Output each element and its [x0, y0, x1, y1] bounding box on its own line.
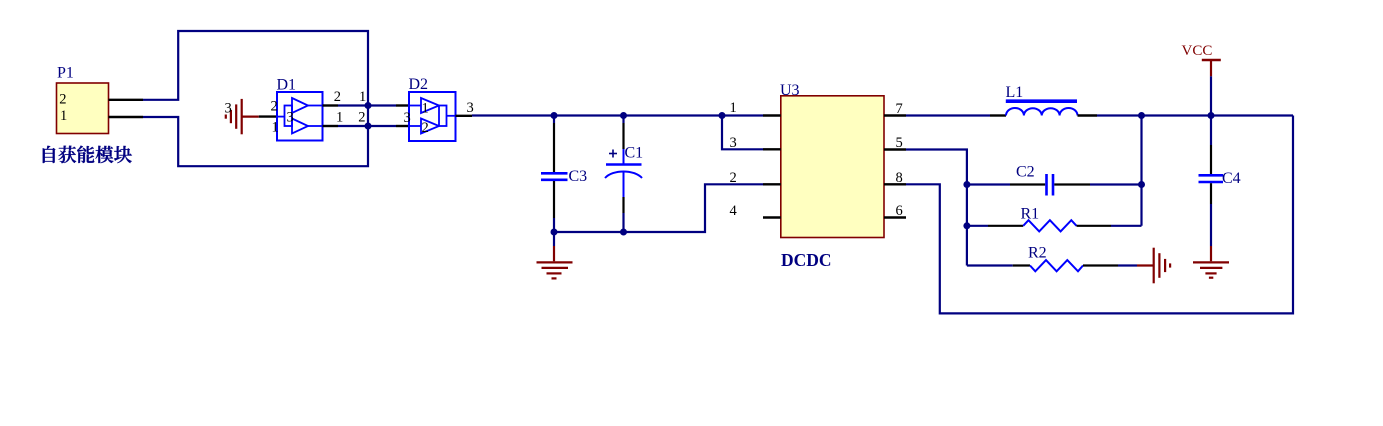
- wire P1.2 top loop to node A: [143, 31, 368, 106]
- svg-text:1: 1: [422, 101, 429, 117]
- svg-text:2: 2: [358, 110, 365, 126]
- svg-text:U3: U3: [780, 82, 800, 99]
- svg-text:7: 7: [896, 101, 903, 117]
- inductor L1: [1006, 101, 1078, 115]
- resistor R1 zigzag: [1023, 220, 1076, 231]
- svg-text:D2: D2: [409, 76, 429, 93]
- capacitor C2 row wires: [967, 183, 1010, 185]
- svg-text:C3: C3: [569, 168, 588, 185]
- label zihuoneng mokuai (self-powering module): [43, 146, 132, 164]
- D2 input pin stubs: [396, 104, 409, 106]
- wire VCC to rail: [1210, 76, 1212, 115]
- wire D1.2 - node A - D2.1: [338, 104, 396, 106]
- svg-text:D1: D1: [277, 76, 297, 93]
- power ground at R2, bar style pointing right: [1137, 248, 1170, 284]
- main rail wire D2.3 to U3.1: [472, 114, 763, 116]
- svg-text:1: 1: [730, 100, 737, 116]
- U3 pin 4 stub: [763, 216, 781, 218]
- svg-text:3: 3: [467, 100, 474, 116]
- svg-text:2: 2: [334, 89, 341, 105]
- svg-text:1: 1: [272, 120, 279, 136]
- junction dot R1 left: [963, 222, 970, 229]
- U3 pin 5 stub: [884, 148, 906, 150]
- wire U3.7 to L1: [906, 114, 990, 116]
- junction dot VCC: [1208, 112, 1215, 119]
- svg-text:4: 4: [730, 203, 738, 219]
- svg-text:3: 3: [225, 101, 232, 117]
- svg-text:C2: C2: [1016, 164, 1035, 181]
- wire L1 to VCC rail and right corner: [1097, 114, 1293, 116]
- svg-text:8: 8: [896, 170, 903, 186]
- svg-text:2: 2: [422, 120, 429, 136]
- junction dot C1/rail: [620, 112, 627, 119]
- capacitor C4: [1199, 116, 1224, 247]
- svg-text:3: 3: [287, 110, 294, 126]
- IC U3 DCDC body: [781, 96, 884, 238]
- junction dot C3/bottom rail: [551, 229, 558, 236]
- junction dot L1/vertical: [1138, 112, 1145, 119]
- wire U3.5 down to C2/R1/R2: [906, 150, 967, 266]
- svg-text:P1: P1: [57, 64, 74, 81]
- svg-text:1: 1: [336, 110, 343, 126]
- junction dot C3/rail: [551, 112, 558, 119]
- U3 pin 1 stub: [763, 114, 781, 116]
- resistor R2 zigzag: [1030, 260, 1083, 271]
- junction dot C2 left: [963, 181, 970, 188]
- dual diode D2 body: [409, 92, 456, 141]
- svg-text:L1: L1: [1006, 84, 1024, 101]
- svg-text:VCC: VCC: [1182, 43, 1213, 59]
- junction dot C2 right: [1138, 181, 1145, 188]
- connector P1: [57, 83, 109, 134]
- svg-text:2: 2: [730, 170, 737, 186]
- svg-text:1: 1: [359, 89, 366, 105]
- svg-text:5: 5: [896, 135, 903, 151]
- D1 pin 3 stub: [259, 115, 277, 117]
- svg-text:R2: R2: [1028, 245, 1047, 262]
- capacitor C3: [541, 116, 568, 233]
- U3 pin 3 stub: [763, 148, 781, 150]
- svg-text:C4: C4: [1222, 170, 1241, 187]
- junction dot C1/bottom rail: [620, 229, 627, 236]
- L1 left pin stub: [990, 114, 1006, 116]
- earth ground under C3: [537, 232, 573, 278]
- power ground GND (D1 pin3), bar style pointing left: [226, 99, 259, 134]
- U3 pin 8 stub: [884, 183, 906, 185]
- svg-text:3: 3: [404, 110, 411, 126]
- svg-text:2: 2: [59, 92, 66, 108]
- U3 pin 2 stub: [763, 183, 781, 185]
- svg-text:2: 2: [271, 99, 278, 115]
- svg-text:3: 3: [730, 135, 737, 151]
- resistor R1 row wires: [967, 225, 988, 227]
- junction node A: [365, 102, 372, 109]
- svg-text:1: 1: [60, 108, 67, 124]
- wire U3.8 bottom loop to VCC rail right corner: [906, 116, 1293, 314]
- vertical node wire L1/C2/R1: [1140, 116, 1142, 226]
- wire P1.1 bottom loop to node B: [143, 117, 368, 166]
- resistor R2 row wires: [967, 264, 1013, 266]
- U3 pin 7 stub: [884, 114, 906, 116]
- dual diode D1 body: [277, 92, 323, 141]
- wire branch to U3 pin3: [722, 116, 763, 150]
- svg-text:R1: R1: [1021, 206, 1040, 223]
- U3 pin 6 stub: [884, 216, 906, 218]
- P1 pin 1 stub: [109, 116, 144, 118]
- P1 pin 2 stub: [109, 99, 144, 101]
- wire D1.1 - node B - D2.2: [338, 125, 396, 127]
- power symbol VCC: [1202, 60, 1221, 76]
- junction node B: [365, 123, 372, 130]
- earth ground under C4: [1193, 246, 1229, 278]
- D2 output pin stub: [456, 115, 473, 117]
- junction dot pin3 branch: [719, 112, 726, 119]
- polarized capacitor C1: [605, 116, 642, 233]
- svg-text:DCDC: DCDC: [781, 250, 832, 270]
- C1 plus sign: [609, 150, 617, 158]
- D1 output pin stubs: [323, 104, 339, 106]
- bottom rail wire C3/C1 ground to U3 pin2: [554, 184, 763, 232]
- svg-text:6: 6: [896, 203, 903, 219]
- wire node A to node B (loop right edge): [367, 106, 369, 127]
- capacitor C2 plates: [1047, 174, 1054, 196]
- svg-text:C1: C1: [625, 145, 644, 162]
- L1 right pin stub: [1078, 114, 1098, 116]
